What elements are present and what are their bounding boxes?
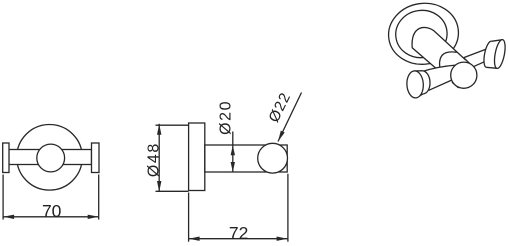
dim 72 arrow left <box>189 237 200 241</box>
right end cap <box>92 143 100 173</box>
svg-text:72: 72 <box>229 223 248 243</box>
dim 48 line <box>158 124 160 192</box>
svg-text:Ø22: Ø22 <box>265 90 294 126</box>
dim 22 arrow <box>278 131 285 142</box>
3D post silhouette near ball <box>464 58 471 64</box>
svg-text:70: 70 <box>42 201 62 221</box>
dim 22 leader <box>278 93 302 142</box>
dim 72 ext left <box>188 193 190 242</box>
3D right arm cylinder <box>464 49 488 69</box>
3D right flange rim <box>486 40 502 69</box>
3D plate inner ellipse <box>393 7 450 61</box>
dim 70 line <box>3 216 99 218</box>
3D left arm (tapered) <box>422 65 459 90</box>
3D post cylinder <box>412 27 470 87</box>
dim 48 ext top <box>156 124 189 126</box>
wall plate circle (front view) <box>17 125 83 191</box>
dim 48 arrow down <box>157 181 161 192</box>
3D left flange back face <box>415 70 431 94</box>
dim 72 arrow right <box>277 237 288 241</box>
end ball <box>258 143 288 173</box>
wall plate (side view) <box>189 123 205 191</box>
dim 72 ext right <box>287 174 289 242</box>
3D left flange rim <box>414 71 423 98</box>
dim 70 arrow left <box>3 215 14 219</box>
3D end ball <box>451 62 477 88</box>
hook post (side view) <box>205 145 287 172</box>
3D right flange back face <box>482 41 495 69</box>
dim 70 ext left <box>2 175 4 220</box>
dim 70 arrow right <box>88 215 99 219</box>
dim 48 arrow up <box>157 124 161 135</box>
3D arm/post junction curve <box>440 52 457 67</box>
dim 20 arrow up <box>231 145 235 155</box>
dim 20 arrow down <box>231 162 235 172</box>
hook bar <box>9 150 92 165</box>
svg-text:Ø20: Ø20 <box>218 100 235 135</box>
left end cap <box>3 143 9 173</box>
center hub circle <box>37 144 65 172</box>
3D left flange front face <box>406 70 424 98</box>
3D right flange front face <box>492 39 507 69</box>
svg-text:Ø48: Ø48 <box>145 142 162 177</box>
dim 70 ext right <box>98 175 100 220</box>
dim 48 ext bottom <box>156 190 189 192</box>
3D plate outer ellipse <box>385 0 463 69</box>
dim 72 line <box>189 238 288 240</box>
dim 20 line <box>232 132 234 173</box>
